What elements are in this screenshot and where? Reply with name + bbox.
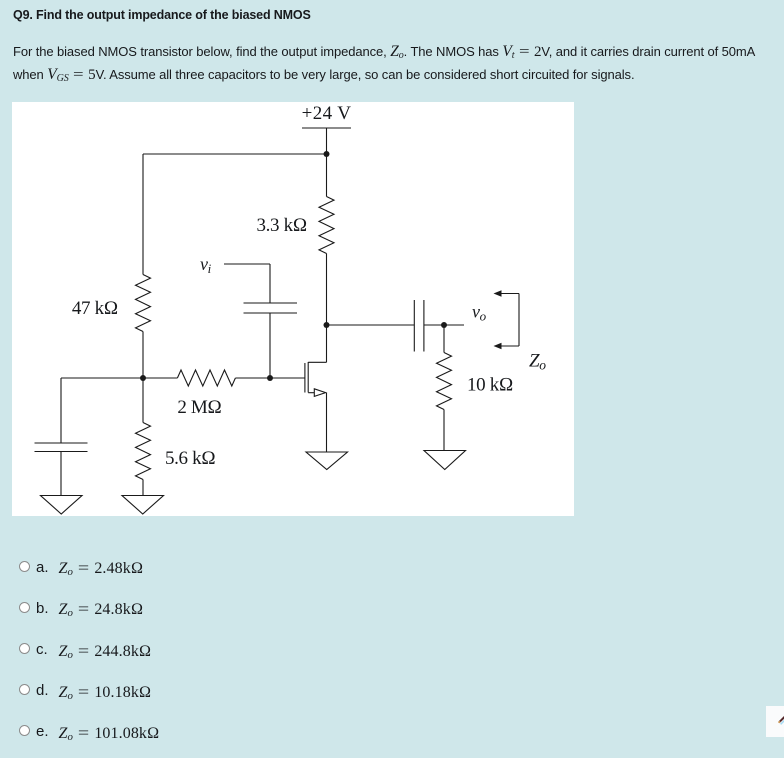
svg-text:vi: vi [200, 254, 212, 276]
svg-text:+24 V: +24 V [302, 103, 352, 124]
svg-text:vo: vo [472, 302, 487, 324]
svg-text:5.6 kΩ: 5.6 kΩ [165, 448, 216, 469]
svg-text:47 kΩ: 47 kΩ [72, 298, 118, 319]
svg-text:10 kΩ: 10 kΩ [467, 375, 513, 396]
svg-text:3.3 kΩ: 3.3 kΩ [257, 215, 308, 236]
svg-text:Zo: Zo [529, 351, 546, 373]
svg-text:2 MΩ: 2 MΩ [177, 397, 221, 418]
